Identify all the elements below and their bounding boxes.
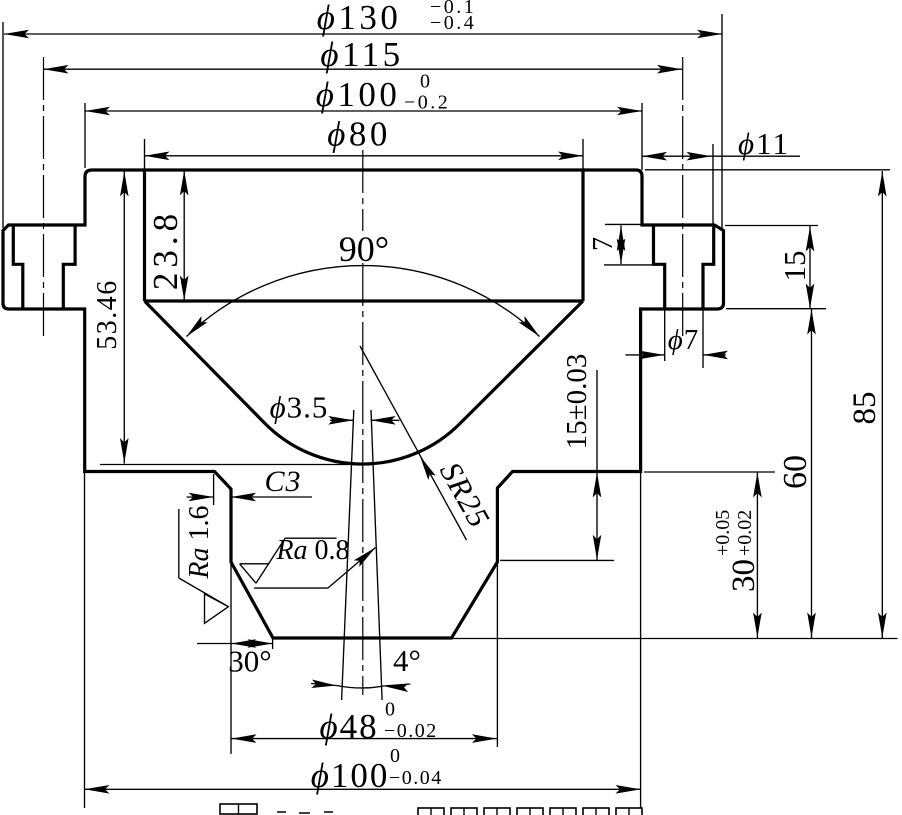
surface finish Ra 1.6 symbol xyxy=(178,509,180,578)
part outer profile (die body section) xyxy=(3,170,724,638)
figure caption (clipped at page bottom) xyxy=(220,804,257,814)
phi80 recess left wall xyxy=(143,170,146,301)
dim 4deg taper angle xyxy=(311,684,337,686)
dim C3 chamfer xyxy=(187,496,214,498)
cone top edge line xyxy=(145,299,584,302)
dim phi100 0/-0.04 bottom xyxy=(85,788,641,790)
svg-text:ϕ80: ϕ80 xyxy=(327,115,391,154)
dim 15 flange thickness xyxy=(809,226,811,309)
SR25 leader with arrow xyxy=(360,346,467,540)
svg-text:−0.04: −0.04 xyxy=(389,767,443,789)
svg-text:−0.4: −0.4 xyxy=(430,12,476,34)
svg-text:53.46: 53.46 xyxy=(92,279,123,350)
svg-text:30: 30 xyxy=(726,559,762,592)
svg-text:+0.05: +0.05 xyxy=(712,510,734,556)
dim 85 overall height xyxy=(881,171,883,638)
svg-text:30°: 30° xyxy=(228,644,271,679)
dim phi115 xyxy=(44,68,683,70)
90deg cone left flank xyxy=(145,301,266,424)
svg-text:ϕ11: ϕ11 xyxy=(738,126,790,161)
svg-text:90°: 90° xyxy=(339,229,389,269)
svg-text:ϕ115: ϕ115 xyxy=(320,35,403,74)
svg-text:C3: C3 xyxy=(264,465,301,498)
dim 90deg cone angle arc xyxy=(187,266,540,337)
dim 23.8 xyxy=(183,170,185,301)
dim phi130 -0.1/-0.4 xyxy=(4,33,722,35)
svg-text:4°: 4° xyxy=(393,643,421,678)
phi80 recess right wall xyxy=(581,170,584,301)
dim 30 +0.05/+0.02 xyxy=(756,472,758,638)
left counterbore phi11 cavity xyxy=(13,225,75,309)
svg-text:−0.2: −0.2 xyxy=(404,92,450,114)
svg-text:ϕ7: ϕ7 xyxy=(668,324,700,356)
svg-text:7: 7 xyxy=(588,237,619,251)
svg-text:+0.02: +0.02 xyxy=(734,510,756,556)
svg-text:Ra 0.8: Ra 0.8 xyxy=(275,535,349,566)
SR25 spherical bottom arc xyxy=(265,424,460,465)
svg-text:0: 0 xyxy=(390,745,400,767)
dim phi100 0/-0.2 xyxy=(85,110,642,112)
90deg cone right flank xyxy=(460,301,583,424)
svg-text:0: 0 xyxy=(385,699,395,721)
phi3.5 tapered hole right wall (4deg) xyxy=(371,410,382,700)
svg-text:15: 15 xyxy=(777,251,812,282)
dim phi80 xyxy=(145,155,584,157)
bottom face extension line right xyxy=(452,638,898,640)
svg-text:Ra 1.6: Ra 1.6 xyxy=(184,505,215,579)
dim 15 plus-minus 0.03 xyxy=(596,370,598,560)
dim phi7 xyxy=(625,354,664,356)
dim 60 xyxy=(811,309,813,638)
svg-text:SR25: SR25 xyxy=(433,456,497,534)
svg-text:60: 60 xyxy=(777,455,814,489)
svg-text:ϕ130: ϕ130 xyxy=(317,0,402,37)
dim phi11 xyxy=(642,155,800,157)
dim phi3.5 xyxy=(330,419,353,421)
svg-text:0: 0 xyxy=(420,71,430,93)
right hole centerline xyxy=(682,57,684,338)
step extension line below lower body (phi48/phi100 ext) xyxy=(230,562,232,754)
svg-text:ϕ100: ϕ100 xyxy=(311,756,390,795)
sphere-bottom reference line xyxy=(100,464,366,466)
right counterbore phi11 cavity xyxy=(654,225,714,309)
main vertical centerline xyxy=(362,150,364,231)
svg-text:23.8: 23.8 xyxy=(146,209,185,290)
svg-text:ϕ48: ϕ48 xyxy=(319,707,378,746)
phi3.5 tapered hole left wall (4deg) xyxy=(342,410,354,700)
svg-text:ϕ100: ϕ100 xyxy=(316,75,401,114)
svg-text:15±0.03: 15±0.03 xyxy=(561,354,593,450)
svg-text:ϕ3.5: ϕ3.5 xyxy=(270,390,329,425)
left hole centerline xyxy=(43,57,45,338)
svg-text:−0.02: −0.02 xyxy=(384,720,438,742)
dim phi48 0/-0.02 xyxy=(232,738,497,740)
svg-text:85: 85 xyxy=(847,392,883,425)
dim 30deg draft angle xyxy=(197,643,273,645)
dim 53.46 xyxy=(123,171,125,464)
dim 7 counterbore depth xyxy=(620,226,622,265)
surface finish Ra 0.8 symbol with leader xyxy=(285,537,337,539)
